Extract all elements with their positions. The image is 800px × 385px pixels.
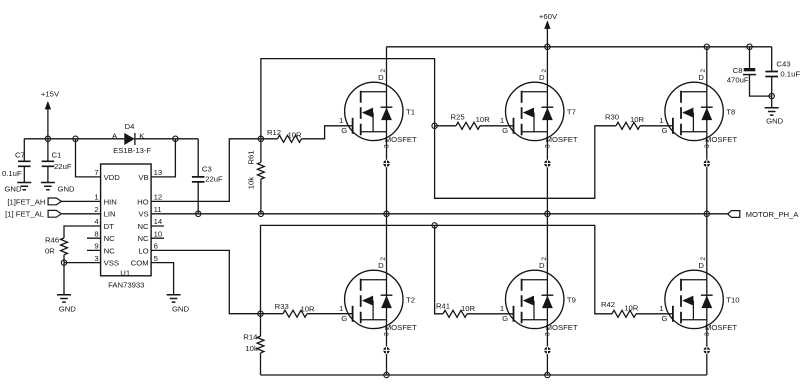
svg-text:T9: T9 <box>567 295 576 304</box>
svg-text:22uF: 22uF <box>205 175 223 184</box>
svg-text:VB: VB <box>138 173 148 182</box>
svg-text:K: K <box>139 131 145 140</box>
svg-text:10R: 10R <box>630 115 645 124</box>
resistor R30 10R <box>605 113 645 130</box>
svg-text:10R: 10R <box>476 115 491 124</box>
resistor R46 0R <box>45 235 67 255</box>
svg-text:470uF: 470uF <box>727 76 749 85</box>
svg-text:R14: R14 <box>243 333 258 342</box>
svg-text:6: 6 <box>154 242 158 251</box>
wire R46 to VSS <box>63 255 65 263</box>
wire gate bus drop to R41 <box>435 225 443 313</box>
svg-text:T7: T7 <box>567 107 576 116</box>
svg-text:+60V: +60V <box>539 12 558 21</box>
node T2 source / rail <box>384 372 389 377</box>
diode D4 ES1B-13-F <box>112 122 151 155</box>
svg-text:R42: R42 <box>601 300 615 309</box>
transistor T10 MOSFET <box>659 257 739 336</box>
power flag +15V <box>41 90 60 139</box>
svg-text:HIN: HIN <box>104 197 117 206</box>
wire bottom source rail <box>261 374 707 376</box>
svg-text:R12: R12 <box>267 128 281 137</box>
svg-text:R41: R41 <box>436 302 450 311</box>
ground (C1) <box>41 183 75 194</box>
svg-text:GND: GND <box>4 184 22 193</box>
resistor R33 10R <box>261 302 315 317</box>
wire HO to gate bus <box>151 139 261 202</box>
resistor R41 10R <box>436 302 476 318</box>
svg-text:NC: NC <box>104 234 116 243</box>
svg-text:10k: 10k <box>246 177 255 190</box>
svg-text:7: 7 <box>94 168 98 177</box>
ground (VSS) <box>57 295 76 314</box>
wire gate bus to R30 <box>435 126 616 199</box>
svg-text:NC: NC <box>137 234 149 243</box>
resistor R12 10R <box>261 128 302 142</box>
svg-text:VDD: VDD <box>104 173 121 182</box>
svg-text:0R: 0R <box>45 246 55 255</box>
capacitor C7 <box>2 139 31 183</box>
node T7 source / T9 drain <box>545 211 550 216</box>
ground (C43) <box>765 108 784 126</box>
svg-text:NC: NC <box>104 246 116 255</box>
wire T10 drain-source column <box>706 214 708 375</box>
wire VDD riser <box>76 139 101 177</box>
resistor R25 10R <box>435 113 491 130</box>
node LO gate bus / R14 <box>258 311 263 316</box>
svg-text:ES1B-13-F: ES1B-13-F <box>113 146 151 155</box>
svg-text:C1: C1 <box>52 151 62 160</box>
svg-text:D4: D4 <box>125 122 136 131</box>
svg-text:C8: C8 <box>733 66 743 75</box>
svg-text:R30: R30 <box>605 113 619 122</box>
transistor T9 MOSFET <box>500 257 578 336</box>
wire D4 cathode to C3 corner <box>135 138 198 140</box>
svg-text:C7: C7 <box>15 151 25 160</box>
svg-text:VS: VS <box>138 210 148 219</box>
wire low-side gate bus <box>261 225 613 313</box>
svg-text:12: 12 <box>154 193 163 202</box>
wire LIN <box>62 213 101 215</box>
svg-text:0.1uF: 0.1uF <box>2 169 22 178</box>
node VB riser <box>173 136 178 141</box>
svg-text:11: 11 <box>154 205 162 214</box>
svg-text:4: 4 <box>94 217 99 226</box>
power flag +60V <box>539 12 558 47</box>
svg-text:10: 10 <box>154 229 163 238</box>
svg-text:10R: 10R <box>300 305 315 314</box>
wire +60V top rail <box>387 46 772 48</box>
wire VB riser <box>151 139 175 177</box>
svg-text:[1]FET_AH: [1]FET_AH <box>7 197 45 206</box>
svg-text:10k: 10k <box>245 344 258 353</box>
wire T1 drain-source column <box>386 47 388 214</box>
node C8 / +60V rail <box>747 44 752 49</box>
svg-text:T10: T10 <box>726 295 739 304</box>
svg-text:R61: R61 <box>246 150 255 164</box>
op-amp U1 FAN73933 gate driver <box>87 164 164 289</box>
node C3 / VS rail <box>196 211 201 216</box>
svg-text:0.1uF: 0.1uF <box>780 69 800 78</box>
wire R33 to T2 gate <box>307 313 353 315</box>
node +15V rail / C1 <box>45 136 50 141</box>
svg-text:C3: C3 <box>202 164 212 173</box>
svg-text:14: 14 <box>154 217 163 226</box>
wire LO to gate bus <box>151 250 260 313</box>
port FET_AL <box>5 210 61 219</box>
wire HIN <box>61 200 100 202</box>
svg-text:LO: LO <box>138 246 148 255</box>
svg-text:22uF: 22uF <box>54 162 72 171</box>
svg-text:GND: GND <box>766 117 784 126</box>
svg-text:T8: T8 <box>726 107 735 116</box>
svg-text:10R: 10R <box>624 303 639 312</box>
svg-text:GND: GND <box>172 305 190 314</box>
svg-text:8: 8 <box>94 229 98 238</box>
svg-text:T1: T1 <box>406 107 415 116</box>
wire T2 drain-source column <box>386 214 388 375</box>
capacitor C1 <box>42 139 72 183</box>
svg-text:LIN: LIN <box>104 210 116 219</box>
svg-text:13: 13 <box>154 168 163 177</box>
wire R41 to T9 gate <box>467 313 514 315</box>
svg-text:R46: R46 <box>45 235 59 244</box>
node R61 / VS rail <box>258 211 263 216</box>
svg-text:GND: GND <box>58 184 76 193</box>
T9 source pin marker <box>544 347 552 355</box>
T8 source pin marker <box>703 160 711 168</box>
svg-text:1: 1 <box>94 193 98 202</box>
resistor R42 10R <box>601 300 639 317</box>
T1 source pin marker <box>383 160 391 168</box>
node +60V / T7 drain <box>545 44 550 49</box>
capacitor C8 470uF <box>727 47 772 96</box>
capacitor C43 0.1uF <box>765 47 800 96</box>
svg-text:2: 2 <box>94 205 98 214</box>
node R25 gate bus <box>432 123 437 128</box>
svg-text:10R: 10R <box>461 304 476 313</box>
transistor T7 MOSFET <box>500 69 578 148</box>
svg-text:3: 3 <box>94 254 98 263</box>
wire R30 to T8 gate <box>640 125 673 127</box>
wire T7 drain-source column <box>546 47 548 214</box>
transistor T8 MOSFET <box>659 69 737 148</box>
svg-text:9: 9 <box>94 242 98 251</box>
port FET_AH <box>7 197 61 206</box>
wire R42 to T10 gate <box>636 313 673 315</box>
wire VS phase rail <box>151 213 728 215</box>
wire R25 to T7 gate <box>480 125 514 127</box>
resistor R61 10k <box>246 139 264 214</box>
node R41 gate bus <box>432 223 437 228</box>
node C8 / C43 ground <box>769 93 774 98</box>
transistor T1 MOSFET <box>339 69 417 148</box>
wire C43 to ground <box>771 96 773 108</box>
T2 source pin marker <box>383 347 391 355</box>
svg-text:R33: R33 <box>275 302 289 311</box>
node VDD riser <box>73 136 78 141</box>
port MOTOR_PH_A <box>728 210 800 219</box>
svg-text:10R: 10R <box>287 130 302 139</box>
svg-text:FAN73933: FAN73933 <box>108 280 144 289</box>
svg-text:[1] FET_AL: [1] FET_AL <box>5 210 45 219</box>
wire high-side gate bus upper loop <box>261 59 435 139</box>
svg-text:U1: U1 <box>120 268 130 277</box>
svg-text:HO: HO <box>137 197 149 206</box>
ground (COM) <box>167 295 190 314</box>
svg-text:COM: COM <box>131 259 149 268</box>
ground (C7) <box>4 183 31 194</box>
svg-text:GND: GND <box>59 305 77 314</box>
node R46 / VSS <box>61 260 66 265</box>
wire +15V rail <box>24 138 124 140</box>
wire COM <box>151 263 174 295</box>
node T9 source / rail <box>545 372 550 377</box>
node HO gate bus <box>258 136 263 141</box>
node T8 source / T10 drain / MOTOR_PH_A <box>704 211 709 216</box>
wire DT <box>64 226 101 238</box>
resistor R14 10k <box>243 314 264 375</box>
svg-text:VSS: VSS <box>104 259 119 268</box>
svg-text:NC: NC <box>137 222 149 231</box>
svg-text:R25: R25 <box>451 113 465 122</box>
svg-text:A: A <box>112 131 118 140</box>
wire T9 drain-source column <box>546 214 548 375</box>
svg-text:MOTOR_PH_A: MOTOR_PH_A <box>746 210 800 219</box>
svg-text:5: 5 <box>154 254 158 263</box>
svg-text:+15V: +15V <box>41 90 60 99</box>
T10 source pin marker <box>703 347 711 355</box>
wire T8 drain-source column <box>706 47 708 214</box>
wire VSS <box>64 263 101 295</box>
capacitor C3 <box>192 139 223 214</box>
wire R12 to T1 gate <box>302 126 353 139</box>
svg-text:T2: T2 <box>406 295 415 304</box>
T7 source pin marker <box>544 160 552 168</box>
node T1 source / T2 drain <box>384 211 389 216</box>
transistor T2 MOSFET <box>339 257 417 336</box>
svg-text:DT: DT <box>104 222 115 231</box>
svg-text:C43: C43 <box>776 59 790 68</box>
node T8 drain <box>704 44 709 49</box>
